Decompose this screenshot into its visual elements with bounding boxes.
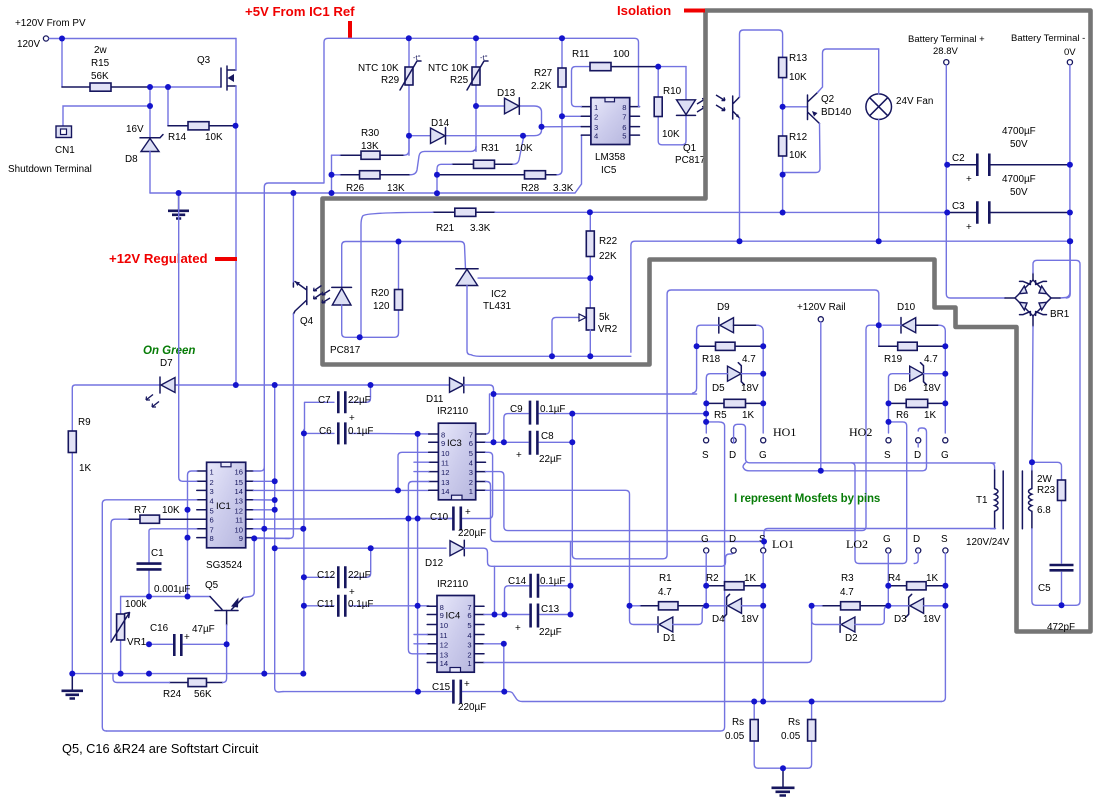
resistor R12 (779, 107, 787, 213)
resistor R24 (113, 644, 227, 686)
capacitor C8 (530, 431, 572, 455)
IC U IC4 IR2110 (427, 596, 484, 673)
wire +12V red dash (215, 257, 237, 261)
svg-text:472pF: 472pF (1047, 622, 1075, 633)
wire LO2 D stub (917, 443, 919, 447)
wire IC1 pin10 row (253, 528, 303, 530)
capacitor C15 (283, 680, 504, 704)
svg-text:Rs: Rs (732, 717, 744, 728)
wire Isolation red dash (684, 9, 705, 13)
capacitor C16 (149, 634, 227, 656)
diode D7 LED (146, 377, 175, 407)
wire IC1 pin15 bus (253, 385, 283, 692)
wire softstart node (121, 596, 210, 598)
wire IC3 pin11 stub (414, 461, 429, 463)
svg-text:0V: 0V (1064, 47, 1076, 58)
svg-text:5k: 5k (599, 312, 609, 323)
transistor Q1 phototransistor (716, 30, 783, 241)
wire main bottom rail (72, 673, 303, 675)
svg-text:14: 14 (235, 487, 243, 496)
svg-text:D11: D11 (426, 394, 444, 405)
diode PC817 LED (322, 287, 394, 337)
svg-text:D: D (729, 450, 736, 461)
resistor R13 (779, 57, 787, 106)
resistor R7 (111, 515, 197, 640)
capacitor C10 (408, 507, 460, 531)
capacitor C7 (305, 385, 371, 430)
wire sense bottom (758, 767, 807, 769)
svg-text:+: + (349, 587, 355, 598)
wire comparator ground rail (150, 135, 582, 193)
resistor R31 (437, 136, 528, 194)
svg-text:10K: 10K (515, 143, 533, 154)
svg-text:+: + (966, 174, 972, 185)
svg-text:13: 13 (235, 496, 243, 505)
svg-text:Shutdown Terminal: Shutdown Terminal (8, 164, 92, 175)
wire IC3 pin13 riser bus (408, 482, 428, 654)
thermistor NTC R29 (400, 38, 421, 155)
wire C15 to Rs rail (504, 692, 941, 702)
svg-text:G: G (883, 534, 891, 545)
diode D1 (630, 606, 707, 633)
svg-text:+: + (966, 222, 972, 233)
svg-text:C13: C13 (541, 604, 560, 615)
svg-text:4: 4 (594, 131, 598, 140)
svg-text:IR2110: IR2110 (437, 406, 469, 417)
svg-text:13K: 13K (361, 141, 379, 152)
svg-text:Q5: Q5 (205, 580, 219, 591)
svg-text:8: 8 (210, 534, 214, 543)
svg-text:C11: C11 (317, 599, 335, 610)
svg-text:-t°: -t° (480, 53, 488, 62)
svg-text:+: + (515, 623, 521, 634)
wire T1 primary bottom (764, 529, 996, 548)
svg-text:22K: 22K (599, 251, 617, 262)
svg-text:C16: C16 (150, 623, 169, 634)
svg-text:22µF: 22µF (539, 454, 562, 465)
wire IC4 pin12 stub (414, 643, 427, 645)
capacitor C2 (947, 154, 1070, 177)
wire LO1 G column (705, 553, 707, 606)
svg-text:6.8: 6.8 (1037, 505, 1051, 516)
svg-text:24V Fan: 24V Fan (896, 96, 933, 107)
svg-text:22µF: 22µF (348, 395, 371, 406)
svg-text:S: S (941, 534, 948, 545)
wire long feedback bottom (106, 422, 724, 731)
svg-text:D8: D8 (125, 154, 138, 165)
svg-text:2W: 2W (1037, 474, 1052, 485)
svg-text:R29: R29 (381, 75, 400, 86)
resistor R30 (332, 136, 410, 160)
svg-text:D14: D14 (431, 118, 450, 129)
wire IC3 pin2 riser (486, 482, 765, 542)
svg-text:14: 14 (441, 487, 449, 496)
svg-text:0.1µF: 0.1µF (540, 404, 565, 415)
svg-text:5: 5 (210, 506, 214, 515)
svg-text:4.7: 4.7 (742, 354, 756, 365)
svg-text:C8: C8 (541, 431, 554, 442)
svg-text:56K: 56K (194, 689, 212, 700)
svg-text:R27: R27 (534, 68, 552, 79)
svg-text:13: 13 (441, 478, 449, 487)
svg-text:D7: D7 (160, 358, 173, 369)
svg-text:IC1: IC1 (216, 501, 231, 512)
svg-text:0.05: 0.05 (781, 731, 801, 742)
svg-text:R20: R20 (371, 288, 390, 299)
svg-text:C2: C2 (952, 153, 965, 164)
svg-text:13K: 13K (387, 183, 405, 194)
IC U IC3 IR2110 (429, 423, 486, 500)
svg-text:CN1: CN1 (55, 145, 75, 156)
svg-text:D6: D6 (894, 383, 907, 394)
svg-text:16V: 16V (126, 124, 144, 135)
svg-text:+5V From IC1 Ref: +5V From IC1 Ref (245, 4, 355, 19)
svg-text:6: 6 (467, 611, 471, 620)
svg-text:IC2: IC2 (491, 289, 506, 300)
svg-text:T1: T1 (976, 495, 988, 506)
svg-text:D: D (914, 450, 921, 461)
svg-text:LO1: LO1 (772, 537, 794, 551)
svg-text:PC817: PC817 (330, 345, 360, 356)
svg-text:R12: R12 (789, 132, 807, 143)
svg-text:C12: C12 (317, 570, 335, 581)
svg-text:1K: 1K (742, 410, 754, 421)
wire R15 to Q3 gate (63, 87, 221, 126)
svg-text:R2: R2 (706, 573, 719, 584)
terminal HO1 S (704, 438, 709, 443)
svg-text:C5: C5 (1038, 583, 1051, 594)
svg-text:IC4: IC4 (446, 611, 461, 622)
svg-text:TL431: TL431 (483, 301, 512, 312)
op-amp U IC5 LM358 (581, 98, 639, 145)
svg-text:14: 14 (440, 659, 448, 668)
svg-text:3: 3 (467, 640, 471, 649)
capacitor C1 (137, 529, 197, 597)
wire IC3 pin1 to LO1 (486, 490, 630, 606)
svg-text:R18: R18 (702, 354, 721, 365)
svg-text:5: 5 (469, 449, 473, 458)
svg-text:0.05: 0.05 (725, 731, 745, 742)
svg-text:R22: R22 (599, 236, 617, 247)
capacitor C5 (1050, 565, 1074, 605)
svg-text:10K: 10K (662, 129, 680, 140)
svg-text:18V: 18V (923, 383, 941, 394)
wire bootstrap Vs column (572, 290, 879, 559)
wire LO2 S column (941, 553, 945, 701)
terminal HO2 D (916, 438, 921, 443)
svg-text:10K: 10K (789, 150, 807, 161)
svg-text:5: 5 (467, 621, 471, 630)
transistor Q5 softstart (210, 538, 289, 644)
svg-text:D: D (913, 534, 920, 545)
svg-text:D: D (729, 534, 736, 545)
svg-text:D12: D12 (425, 558, 443, 569)
svg-text:Q4: Q4 (300, 316, 314, 327)
svg-text:+120V Rail: +120V Rail (797, 302, 846, 313)
svg-text:R1: R1 (659, 573, 672, 584)
svg-text:C7: C7 (318, 395, 331, 406)
svg-text:47µF: 47µF (192, 624, 215, 635)
potentiometer VR2 5k (552, 308, 594, 356)
terminal LO1 D (731, 548, 736, 553)
svg-text:D4: D4 (712, 614, 725, 625)
svg-text:G: G (759, 450, 767, 461)
svg-text:R10: R10 (663, 86, 682, 97)
wire battery sense rail (631, 241, 1070, 352)
wire IC3 pin12 stub (414, 471, 429, 473)
svg-text:R4: R4 (888, 573, 901, 584)
svg-text:C9: C9 (510, 404, 523, 415)
terminal HO1 G (761, 438, 766, 443)
wire LO2 G column (887, 553, 889, 606)
wire +5V red tick (348, 21, 352, 38)
resistor R20 (395, 242, 403, 338)
svg-text:R7: R7 (134, 505, 147, 516)
svg-text:NTC 10K: NTC 10K (428, 63, 469, 74)
svg-text:4.7: 4.7 (840, 587, 854, 598)
terminal LO2 S (943, 548, 948, 553)
svg-text:R13: R13 (789, 53, 808, 64)
svg-text:2: 2 (210, 478, 214, 487)
svg-text:4: 4 (467, 631, 471, 640)
svg-text:11: 11 (441, 459, 449, 468)
svg-text:3.3K: 3.3K (470, 223, 491, 234)
svg-text:2w: 2w (94, 45, 107, 56)
svg-text:4.7: 4.7 (658, 587, 672, 598)
svg-text:9: 9 (239, 534, 243, 543)
svg-text:VR1: VR1 (127, 637, 147, 648)
wire IC3 pin5 to C10 (462, 452, 492, 518)
ground symbol C (772, 768, 795, 795)
svg-text:R15: R15 (91, 58, 110, 69)
wire IC1 pin11 row (253, 518, 451, 521)
terminal LO1 G (704, 548, 709, 553)
svg-text:1K: 1K (926, 573, 938, 584)
svg-text:+: + (184, 632, 190, 643)
svg-text:IR2110: IR2110 (437, 579, 469, 590)
svg-text:3: 3 (210, 487, 214, 496)
diode D8 zener 16V (140, 106, 163, 193)
svg-text:9: 9 (440, 611, 444, 620)
svg-text:5: 5 (622, 131, 626, 140)
svg-text:D10: D10 (897, 302, 916, 313)
svg-text:R24: R24 (163, 689, 182, 700)
svg-text:On Green: On Green (143, 345, 195, 357)
svg-text:22µF: 22µF (348, 570, 371, 581)
svg-text:1K: 1K (79, 463, 91, 474)
wire 120V top rail (49, 39, 236, 88)
svg-text:15: 15 (235, 478, 243, 487)
svg-text:4.7: 4.7 (924, 354, 938, 365)
svg-text:R3: R3 (841, 573, 854, 584)
resistor R23 (1032, 462, 1066, 563)
wire IC1 pin9 row (253, 537, 289, 540)
transistor Q2 BD140 (783, 49, 879, 175)
svg-text:1: 1 (469, 487, 473, 496)
wire PC817 inner top rail (342, 242, 466, 288)
svg-text:1K: 1K (924, 410, 936, 421)
svg-text:120V/24V: 120V/24V (966, 537, 1010, 548)
svg-text:HO2: HO2 (849, 425, 872, 439)
svg-text:9: 9 (441, 439, 445, 448)
svg-text:+: + (464, 679, 470, 690)
resistor R5 (706, 399, 763, 407)
diode D12 (450, 540, 734, 566)
svg-text:0.1µF: 0.1µF (348, 599, 373, 610)
capacitor C6 (304, 422, 429, 673)
wire IC1 pin16 riser (253, 467, 264, 471)
svg-text:G: G (941, 450, 949, 461)
svg-text:18V: 18V (741, 383, 759, 394)
wire IC1 pin2 (179, 193, 197, 481)
svg-text:7: 7 (210, 525, 214, 534)
svg-text:50V: 50V (1010, 187, 1028, 198)
svg-text:18V: 18V (923, 614, 941, 625)
resistor R11 (590, 63, 686, 71)
wire VCC riser bus (417, 434, 419, 692)
wire BR1 bottom to T1 secondary (1032, 327, 1033, 463)
resistor R10 (654, 67, 686, 145)
wire LO1 S column (762, 553, 764, 701)
svg-text:4: 4 (469, 459, 473, 468)
wire op-amp pin2 tap (562, 115, 581, 117)
svg-text:16: 16 (235, 468, 243, 477)
isolation boundary gray outline (323, 11, 1091, 632)
svg-text:3: 3 (469, 468, 473, 477)
wire R30/R26 left rail (331, 155, 333, 193)
svg-text:Q1: Q1 (683, 143, 697, 154)
resistor Rs1 (750, 702, 758, 769)
svg-text:11: 11 (235, 516, 243, 525)
svg-text:1K: 1K (744, 573, 756, 584)
svg-text:10: 10 (441, 449, 449, 458)
resistor R3 (812, 602, 889, 610)
capacitor C13 (531, 604, 571, 628)
svg-text:2: 2 (594, 113, 598, 122)
svg-text:G: G (701, 534, 709, 545)
terminal CN1 shutdown (56, 126, 72, 138)
svg-text:12: 12 (440, 640, 448, 649)
resistor Rs2 (808, 702, 816, 769)
resistor R21 (361, 208, 590, 337)
svg-text:IC5: IC5 (601, 165, 617, 176)
svg-text:R5: R5 (714, 410, 727, 421)
wire HO1 gate drive (486, 394, 697, 434)
svg-text:R26: R26 (346, 183, 365, 194)
svg-text:6: 6 (210, 516, 214, 525)
svg-text:D2: D2 (845, 633, 858, 644)
wire IC4 bootstrap column (570, 542, 572, 615)
diode D6 zener 18V (889, 363, 946, 433)
svg-text:6: 6 (469, 439, 473, 448)
terminal LO2 G (886, 548, 891, 553)
terminal HO1 D (731, 438, 736, 443)
terminal LO1 S link (762, 547, 765, 549)
wire 120V bridge feed (743, 428, 926, 471)
svg-text:10K: 10K (789, 72, 807, 83)
svg-text:R14: R14 (168, 132, 187, 143)
svg-text:R31: R31 (481, 143, 500, 154)
svg-text:+: + (516, 450, 522, 461)
capacitor C11 (304, 595, 429, 617)
capacitor C9 (504, 401, 706, 443)
resistor R15 (62, 83, 150, 91)
potentiometer VR1 (111, 597, 130, 674)
wire battery minus column (1060, 65, 1070, 298)
svg-text:LM358: LM358 (595, 152, 626, 163)
svg-text:2.2K: 2.2K (531, 81, 552, 92)
capacitor C3 (947, 201, 1070, 224)
transistor IC2 TL431 (456, 269, 631, 357)
wire IC1 pin12 (253, 509, 274, 511)
resistor R2 (706, 582, 763, 590)
svg-text:D9: D9 (717, 302, 730, 313)
svg-text:-t°: -t° (413, 53, 421, 62)
wire HO2 S sense (851, 422, 907, 564)
svg-text:18V: 18V (741, 614, 759, 625)
resistor R27 (558, 38, 566, 87)
terminal battery minus (1067, 60, 1072, 65)
diode D14 (409, 127, 542, 144)
resistor R6 (889, 399, 946, 407)
resistor R22 (586, 212, 594, 308)
svg-text:R9: R9 (78, 417, 91, 428)
terminal battery plus (944, 60, 949, 65)
resistor R19 (879, 342, 946, 350)
wire IC1 pin1 (188, 471, 197, 597)
svg-text:10K: 10K (162, 505, 180, 516)
wire IC1 pin4 (102, 500, 197, 731)
svg-text:0.001µF: 0.001µF (154, 584, 190, 595)
svg-text:S: S (702, 450, 709, 461)
svg-text:R28: R28 (521, 183, 540, 194)
svg-text:220µF: 220µF (458, 702, 486, 713)
wire IC4 pin6 row (484, 614, 529, 616)
svg-text:50V: 50V (1010, 139, 1028, 150)
svg-text:BD140: BD140 (821, 107, 852, 118)
svg-text:4700µF: 4700µF (1002, 126, 1036, 137)
diode D5 zener 18V (706, 363, 763, 433)
wire BR1 top loop (1033, 260, 1080, 605)
svg-text:10: 10 (235, 525, 243, 534)
svg-text:C1: C1 (151, 548, 164, 559)
svg-text:3.3K: 3.3K (553, 183, 574, 194)
svg-text:10K: 10K (205, 132, 223, 143)
svg-text:120: 120 (373, 301, 390, 312)
svg-text:4700µF: 4700µF (1002, 174, 1036, 185)
svg-text:1: 1 (210, 468, 214, 477)
svg-text:C15: C15 (432, 682, 451, 693)
wire 12V D12 branch (275, 547, 446, 549)
diode Q1 PC817 LED (677, 67, 707, 145)
svg-text:22µF: 22µF (539, 627, 562, 638)
svg-text:SG3524: SG3524 (206, 560, 243, 571)
svg-text:28.8V: 28.8V (933, 46, 958, 57)
resistor R9 (68, 385, 76, 674)
transistor Q3 (MOSFET) (221, 39, 236, 386)
svg-text:D5: D5 (712, 383, 725, 394)
transformer T1 (991, 463, 1036, 606)
svg-text:R11: R11 (572, 49, 590, 60)
ground symbol A (168, 193, 189, 219)
transistor Q4 opto output (289, 193, 321, 538)
resistor R18 (697, 342, 764, 350)
ground symbol B (62, 674, 84, 699)
terminal LO2 D (916, 548, 921, 553)
wire IC1 pin13 (253, 499, 274, 501)
thermistor NTC R25 (467, 38, 488, 151)
resistor R4 (888, 582, 945, 590)
